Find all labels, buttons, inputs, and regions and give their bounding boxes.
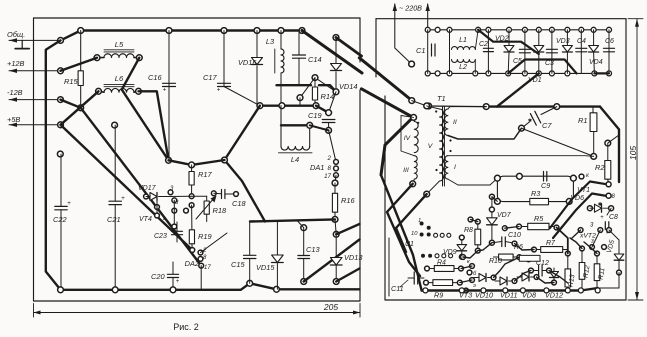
resistor R14 [314, 78, 316, 87]
resistor R9 [428, 282, 433, 284]
node DA2 pin2 [190, 248, 195, 253]
svg-text:✱: ✱ [598, 201, 603, 208]
capacitor C14 [293, 54, 306, 56]
node R9 left [424, 280, 429, 285]
svg-text:C6: C6 [605, 38, 614, 45]
svg-text:C9: C9 [541, 181, 550, 190]
wire L5 right diagonal [122, 58, 169, 161]
node L6 right [136, 88, 142, 94]
wire dense link10 [494, 257, 520, 277]
wire dense link2 [478, 243, 492, 251]
node R17 top [189, 162, 195, 168]
svg-text:105: 105 [628, 146, 638, 160]
node right bus 2 [481, 288, 486, 293]
svg-text:L5: L5 [115, 40, 124, 49]
node bottom rail r8 [549, 71, 554, 76]
node C18 left [211, 191, 216, 196]
wire L4 left lead [280, 106, 282, 126]
node bottom rail r5 [506, 71, 511, 76]
wire rect zigzag A [478, 30, 539, 54]
wire VD14 to C19 [329, 92, 336, 113]
wire C19 bottom [328, 123, 330, 131]
node bottom rail r2 [447, 71, 452, 76]
node J1 [222, 157, 228, 163]
capacitor C18 [221, 190, 223, 199]
right board left border upper [375, 19, 377, 77]
svg-text:VD16: VD16 [238, 58, 257, 67]
node Общ [58, 38, 64, 44]
node C13 top [301, 225, 307, 231]
diode VD4 [593, 30, 595, 46]
wire P4 diagonal [336, 269, 359, 282]
svg-text:R7: R7 [546, 240, 556, 247]
right board outline right [625, 19, 627, 300]
wire DA1 to R16 [335, 175, 336, 183]
wire dense link7 [584, 242, 597, 254]
resistor R3 [530, 198, 549, 204]
svg-text:+: + [121, 195, 125, 202]
wire left vertical [46, 40, 61, 289]
wire VT4 drop1 [156, 201, 158, 215]
transformer T1 dots [417, 122, 419, 124]
node +12В [58, 68, 64, 74]
svg-text:+5В: +5В [7, 115, 20, 124]
node R5 left [517, 224, 522, 229]
wire R8 top link [471, 220, 478, 222]
wire VT4 row [168, 195, 192, 197]
node VT1 a [606, 182, 611, 187]
resistor R8 [477, 222, 479, 230]
diode VD10 [479, 274, 486, 282]
capacitor C9 [543, 172, 545, 182]
net 220В arrow right [427, 4, 429, 30]
node bus C21 [112, 287, 118, 293]
node C10 left [489, 240, 494, 245]
wire C13 top link [298, 222, 304, 228]
svg-text:C13: C13 [306, 245, 320, 254]
svg-text:R3: R3 [531, 189, 540, 198]
node C10 right [512, 241, 517, 246]
svg-text:C4: C4 [577, 38, 586, 45]
wire left diag C [396, 194, 427, 252]
node L4 right [307, 122, 313, 128]
node right bus 0 [423, 288, 428, 293]
wire dense link1 [463, 251, 478, 258]
node L5 left [94, 55, 100, 61]
svg-text:Рис. 2: Рис. 2 [173, 322, 199, 332]
node right bus 4 [520, 288, 525, 293]
node VD7 top [489, 194, 494, 199]
resistor R13 [567, 255, 569, 269]
node R4 right [459, 266, 464, 271]
diode VD7 body [487, 218, 498, 225]
node R15 bottom [78, 105, 84, 111]
node -12В [58, 97, 64, 103]
svg-text:VD13: VD13 [344, 253, 363, 262]
wire L6 right lead [134, 90, 139, 93]
node loop bl [495, 199, 501, 205]
node bus C20 [170, 287, 176, 293]
wire L4 to C19 [310, 125, 329, 130]
svg-text:э: э [473, 283, 476, 289]
node VD17 left [144, 194, 149, 199]
node R5 right [554, 225, 559, 230]
node bus P1 [247, 280, 253, 286]
node right bus 6 [565, 288, 570, 293]
tear diagonal D2 [361, 89, 413, 175]
wire loop [497, 176, 573, 201]
wire L3 bottom [280, 73, 282, 106]
wire VD16 lead top [256, 31, 258, 58]
node T1 top [424, 103, 430, 109]
resistor R5 [521, 226, 528, 228]
svg-text:C19: C19 [308, 111, 322, 120]
variable arrow R18 [196, 197, 215, 219]
inductor L5 [104, 54, 134, 58]
node VT3 a [461, 255, 466, 260]
svg-text:10: 10 [411, 231, 418, 237]
node VT2 c [607, 228, 612, 233]
svg-text:8: 8 [328, 165, 332, 172]
wire left thin vertical [388, 238, 390, 296]
node top rail B [166, 28, 172, 34]
node DA1 pin8 [334, 166, 339, 171]
wire dense link3 [515, 244, 535, 251]
node R1 bottom [591, 154, 597, 160]
node top rail r0 [425, 27, 430, 32]
node L6 left [96, 88, 102, 94]
wire VT4 drop2 [173, 200, 175, 225]
node DA1 pin17 [334, 173, 339, 178]
node top rail C [221, 28, 227, 34]
node top rail r11 [591, 27, 596, 32]
node top rail r7 [536, 27, 541, 32]
wire dense link4 [557, 228, 568, 254]
node right bus 7 [578, 288, 583, 293]
wire T1 IV top [413, 117, 416, 121]
node R16 bottom [332, 217, 338, 223]
inductor L2 [452, 60, 476, 63]
svg-text:-12В: -12В [7, 88, 23, 97]
wire dense link8 [461, 266, 472, 269]
wire dense link11 [515, 271, 532, 282]
wire C14 bottom [298, 58, 300, 85]
node R6 b [526, 257, 531, 262]
svg-text:R16: R16 [341, 196, 355, 205]
node C12 left [529, 268, 534, 273]
svg-text:17: 17 [324, 173, 331, 180]
node T1 pad top [426, 103, 432, 109]
node R7 left [532, 247, 537, 252]
svg-text:VT1: VT1 [577, 187, 590, 194]
node top rail r6 [522, 27, 527, 32]
node C18 right [234, 192, 239, 197]
node loop tl [495, 175, 501, 181]
svg-text:C22: C22 [53, 215, 67, 224]
node VD14 bottom [333, 89, 339, 95]
wire -12В to R15 node [61, 100, 81, 108]
svg-text:C7: C7 [542, 121, 552, 130]
wire VD16 lead bottom [257, 66, 260, 106]
resistor R4 [429, 268, 434, 270]
node R5 feed [502, 226, 507, 231]
wire dense link5 [549, 271, 568, 284]
svg-text:C14: C14 [308, 55, 322, 64]
wire R5 feed [505, 227, 519, 229]
node DA1 pin2 [334, 160, 339, 165]
node R8 top link a [468, 217, 473, 222]
node bus P4 [333, 279, 339, 285]
node trace106 right [554, 104, 560, 110]
wire C7 to R1pad [522, 128, 594, 156]
capacitor C1 [427, 30, 429, 74]
node VT2 b [598, 228, 603, 233]
node VT2 d [590, 245, 595, 250]
diode VD2 [508, 30, 510, 46]
wire VD14 lead [335, 38, 337, 64]
wire mid to J1 [192, 160, 225, 165]
wire T1 V top [427, 106, 440, 109]
inductor L4 [280, 125, 282, 146]
node bottom rail r9 [565, 71, 570, 76]
node bottom rail r6 [522, 71, 527, 76]
svg-text:2: 2 [327, 155, 332, 162]
wire VT2 links [572, 230, 581, 238]
svg-text:R17: R17 [198, 170, 212, 179]
wire rect bottom thick [594, 72, 609, 74]
diode VD15 [276, 222, 278, 256]
wire R14 link [300, 78, 315, 98]
wire T1 V bottom [427, 181, 440, 194]
svg-text:+: + [176, 279, 180, 285]
node top rail D [254, 28, 260, 34]
node top rail r8 [549, 27, 554, 32]
node VT4 b [172, 198, 177, 203]
node VD13 top [333, 231, 339, 237]
node VT3 b [470, 264, 475, 269]
wire chevron A [550, 182, 607, 229]
svg-text:в: в [163, 216, 166, 222]
node trace106 B [279, 103, 285, 109]
wire C8 leads [607, 208, 611, 215]
node top rail r3 [476, 27, 481, 32]
tear trace LD1 [302, 31, 362, 74]
wire trace106 to C19 [316, 106, 329, 113]
capacitor C6 [608, 30, 610, 74]
wire trace y106 [486, 105, 600, 107]
node VD5 bottom [617, 270, 622, 275]
transformer T1 winding III [414, 156, 417, 179]
wire VD14 bottom [335, 72, 337, 92]
node T1 IV top [411, 115, 417, 121]
node top rail r5 [507, 27, 512, 32]
node trace106 A [257, 103, 263, 109]
node R4 left [425, 266, 430, 271]
svg-text:C23: C23 [154, 233, 167, 240]
diode VD8 [522, 273, 529, 281]
inductor L1 [452, 47, 476, 50]
resistor R6 [519, 255, 540, 261]
wire C14 top [298, 31, 300, 56]
node top rail F [299, 28, 305, 34]
wire C17 lead [223, 31, 225, 87]
svg-text:C20: C20 [151, 272, 165, 281]
node trace106 left [483, 104, 489, 110]
svg-text:C3: C3 [545, 60, 554, 67]
svg-text:R9: R9 [434, 291, 443, 300]
wire R18 top link [192, 195, 207, 197]
svg-text:C2: C2 [479, 41, 488, 48]
node C22 top [57, 151, 63, 157]
svg-text:R1: R1 [578, 116, 587, 125]
wire left diag A [381, 175, 422, 291]
wire trace 85 right [319, 85, 336, 92]
svg-text:R14: R14 [321, 92, 335, 101]
node L5 right [136, 55, 142, 61]
node VT1 b [606, 193, 611, 198]
capacitor C11 [408, 277, 414, 279]
node R2 top [605, 140, 611, 146]
capacitor C8 [604, 222, 606, 230]
wire loop to VD7 [492, 197, 498, 202]
diode VD16 [252, 58, 263, 65]
resistor R1 [592, 107, 594, 113]
wire right bottom bus [422, 288, 598, 291]
capacitor C19 [322, 119, 335, 121]
svg-text:C21: C21 [107, 215, 121, 224]
node top rail r4 [486, 27, 491, 32]
right board outline top [376, 18, 626, 20]
node DA2 pin8 [198, 250, 203, 255]
svg-text:+: + [600, 215, 604, 221]
wire trace 85 left [277, 84, 312, 86]
wire bottom bus [61, 283, 360, 290]
wire T1 I bottom [448, 178, 498, 185]
node +5В [58, 122, 64, 128]
svg-text:VD7: VD7 [497, 212, 512, 219]
wire trace y106 bend [600, 107, 619, 182]
node right bus 3 [503, 288, 508, 293]
node VD14 top [333, 35, 339, 41]
svg-text:R4: R4 [437, 260, 446, 267]
wire C11 callout [400, 280, 408, 287]
resistor R15 [78, 71, 83, 86]
node C19 bottom [326, 127, 332, 133]
svg-text:R15: R15 [64, 77, 78, 86]
svg-text:17: 17 [204, 265, 211, 271]
diode VD11 [500, 277, 507, 285]
wire P3 diagonal [304, 240, 360, 282]
node VT2 e [602, 245, 607, 250]
node T1 V bottom [424, 191, 430, 197]
capacitor C4 [580, 30, 582, 74]
svg-text:DA2: DA2 [185, 259, 199, 268]
capacitor C15 [249, 222, 251, 256]
svg-text:VT4: VT4 [139, 216, 152, 223]
node R14 top [312, 75, 318, 81]
node R17 bot2 [189, 203, 194, 208]
capacitor C16 [163, 82, 176, 84]
node VT2 a [578, 228, 583, 233]
wire T1 I top [448, 155, 594, 158]
capacitor C20 [172, 262, 174, 274]
wire diagB kink [225, 160, 266, 222]
svg-text:L1: L1 [459, 37, 467, 44]
tear node D1 end [409, 98, 415, 104]
resistor R19 [189, 230, 194, 244]
wire top rail [61, 31, 303, 41]
node VT4 d [155, 213, 160, 218]
capacitor C5 [524, 30, 526, 74]
svg-text:R18: R18 [213, 206, 227, 215]
transformer T1 winding IV [414, 122, 418, 153]
node VD9 top [459, 235, 464, 240]
svg-text:R5: R5 [534, 214, 544, 223]
wire T1 winding box [401, 116, 414, 156]
node bottom rail r0 [425, 71, 430, 76]
IC U1 pads row1 [420, 222, 424, 226]
node R14 link [297, 95, 303, 101]
node VD8 right [534, 275, 539, 280]
node VT4 g [184, 208, 189, 213]
wire R17 to R19 [191, 205, 193, 230]
resistor R10 [493, 256, 498, 258]
node bottom rail r11 [607, 71, 612, 76]
node R8 top [475, 219, 480, 224]
tear trace LD2 [336, 38, 362, 57]
node C7 left [519, 125, 525, 131]
wire dense link6 [570, 238, 582, 249]
svg-text:R8: R8 [464, 227, 473, 234]
svg-text:+12В: +12В [7, 59, 25, 68]
wire L5 left lead [97, 57, 104, 59]
node loop br [566, 199, 572, 205]
dimension line 205 [33, 304, 35, 318]
svg-text:VD14: VD14 [339, 82, 358, 91]
node right bus 5 [544, 288, 549, 293]
wire diag +5В to DA2 [61, 125, 193, 250]
wire T1 II top [448, 107, 486, 109]
node VT4 e [172, 208, 177, 213]
svg-text:II: II [453, 119, 457, 126]
resistor R12 [581, 250, 583, 263]
wire D1 pad to T1 [412, 101, 427, 106]
wire R14 to VD14 [315, 78, 336, 92]
wire trace106 thin [429, 105, 487, 108]
wire R15 top [80, 31, 82, 71]
wire dense link12 [537, 277, 555, 283]
svg-text:C18: C18 [232, 199, 246, 208]
node VD9 bottom [459, 254, 464, 259]
svg-text:R2: R2 [595, 163, 604, 172]
wire L4 top bar [281, 124, 310, 126]
diode VD5 [618, 240, 620, 254]
right board left border lower [384, 96, 386, 300]
svg-text:Общ.: Общ. [7, 30, 25, 39]
node top rail r1 [435, 27, 440, 32]
left board outline [34, 17, 361, 19]
wire AC top rail [428, 29, 609, 31]
svg-text:R10: R10 [489, 258, 502, 265]
node R11 top [595, 251, 600, 256]
net +12В wire [9, 70, 61, 72]
node VT4 f [172, 224, 177, 229]
capacitor C10 [492, 242, 502, 243]
node R13 top [565, 251, 570, 256]
wire rail drop [497, 73, 539, 106]
svg-text:C8: C8 [609, 214, 618, 221]
svg-text:R19: R19 [198, 232, 212, 241]
